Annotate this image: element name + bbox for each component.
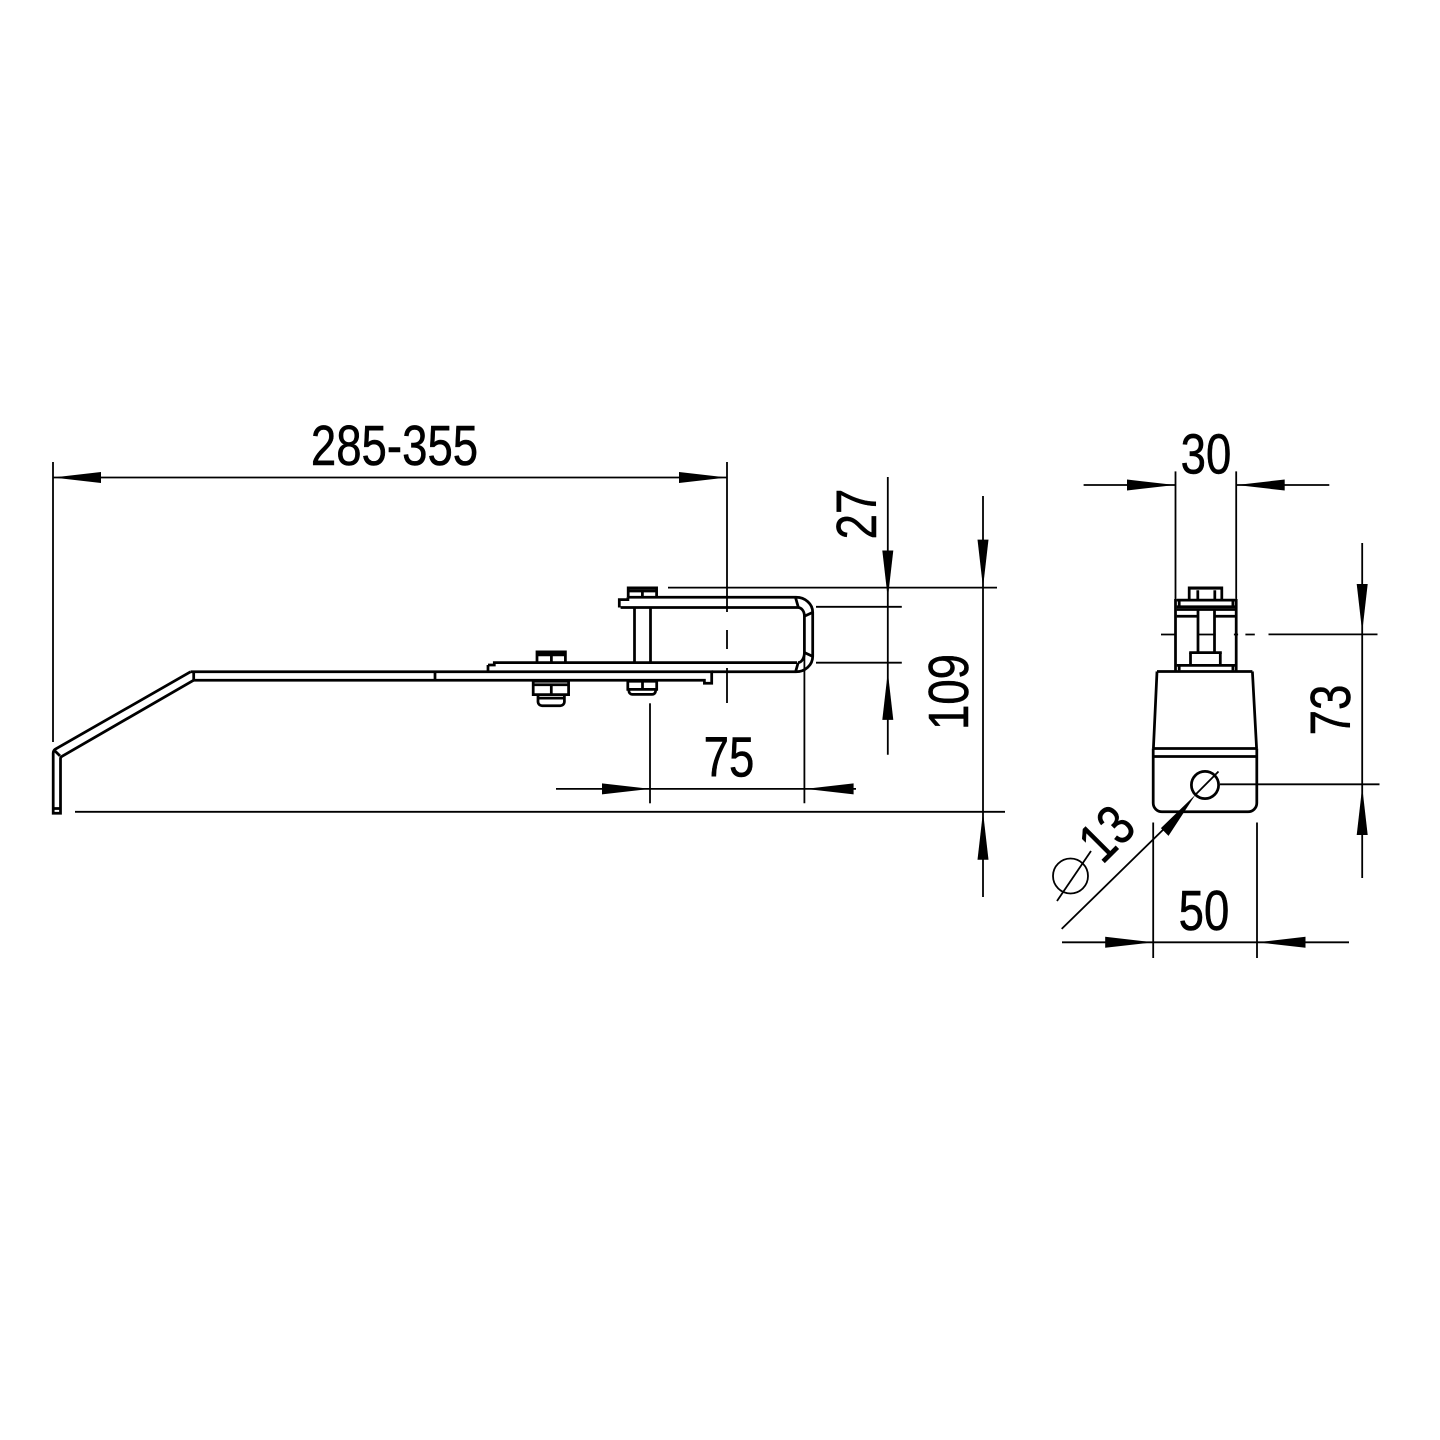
dimension 50 label — [1179, 878, 1230, 942]
svg-text:30: 30 — [1181, 422, 1232, 486]
extension line left (x=53) — [52, 462, 54, 742]
bolt B1 head (on lower strip, x centre 551) — [537, 652, 565, 663]
dimension 75 line — [556, 783, 856, 794]
clamp lower strip (side view) — [488, 663, 797, 672]
bolt B2 head (on clamp upper strip, x centre 642.5) — [628, 588, 656, 597]
belt groove lines — [1153, 749, 1256, 757]
extension line 109 top (y=587.6) — [668, 587, 997, 589]
dimension 73 label — [1298, 685, 1362, 736]
hole (13 dia) — [1191, 771, 1218, 798]
dimension 30 line with arrows — [1084, 480, 1330, 491]
extension line 75 left (x=650) — [649, 703, 651, 803]
dimension 50 line with arrows — [1062, 937, 1349, 948]
extension line 73 top (y=634.4) — [1269, 633, 1378, 635]
lower band above body — [1177, 665, 1235, 670]
dimension 73 line with arrows — [1357, 543, 1368, 878]
dia symbol of label — [1053, 851, 1091, 901]
bar joint tick at x=435 — [434, 672, 437, 681]
bolt B1 nut and tip (below bar) — [533, 681, 568, 706]
sleeve below nut — [1191, 653, 1221, 666]
bolt B2 shank — [635, 608, 651, 663]
bolt axis centre line (dashed, y=634.5) — [1161, 634, 1255, 636]
bolt B2 nut and tip (below bar) — [628, 681, 657, 694]
extension/center line right (x=727) — [726, 462, 728, 703]
leader line for dia 13 — [1062, 772, 1219, 929]
extension lines 30 (x=1175.5, x=1236.2) — [1176, 471, 1237, 599]
cone body (front view trapezoid) — [1153, 672, 1256, 749]
svg-text:73: 73 — [1298, 685, 1362, 736]
dimension 109 label — [916, 654, 980, 730]
svg-text:285-355: 285-355 — [311, 413, 478, 477]
dimension 285-355 line — [53, 472, 727, 483]
hole centre line to right — [1220, 783, 1380, 785]
svg-text:75: 75 — [704, 725, 755, 789]
dimension 30 label — [1181, 422, 1232, 486]
washer band under bolt head — [1177, 600, 1235, 609]
bolt B2 head (front view) — [1189, 588, 1222, 600]
lower block with rounded bottom corners — [1153, 749, 1257, 812]
dimension 27 label — [824, 489, 888, 540]
clamp strip edges (front view) — [1176, 599, 1237, 671]
dimension 109 line with arrows — [978, 496, 989, 897]
dimension 285-355 label — [311, 413, 478, 477]
nut bottom (front view) — [1189, 651, 1222, 654]
dimension 75 label — [704, 725, 755, 789]
svg-text:50: 50 — [1179, 878, 1230, 942]
nut top line (front view) — [1177, 615, 1235, 618]
extension line 109 bottom (y=811.8) — [75, 811, 1005, 813]
clamp U-bracket (side view) — [619, 597, 812, 672]
bent bar (roof hook main bar, side view) — [53, 672, 712, 813]
bolt B2 shank (front view) — [1198, 610, 1215, 653]
extension line 75 right (x=804.4) — [803, 653, 805, 804]
extension lines 27 (y=606.8, y=662.7) — [816, 607, 902, 663]
svg-text:109: 109 — [916, 654, 980, 730]
label 13 (rotated 45) — [1066, 793, 1147, 874]
svg-text:27: 27 — [824, 489, 888, 540]
dimension 27 line with arrows — [882, 477, 893, 755]
extension lines 50 (x=1153.2, x=1257) — [1153, 823, 1257, 959]
